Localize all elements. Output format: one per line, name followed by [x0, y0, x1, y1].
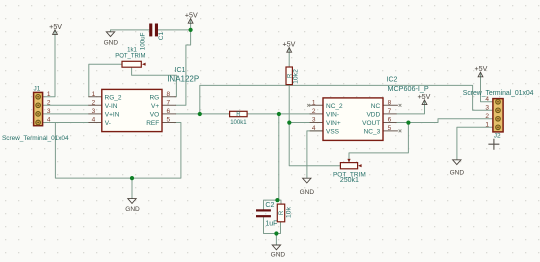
- capacitor C2: [256, 209, 271, 217]
- NC mark IC2 pin 1: [307, 104, 310, 107]
- svg-text:V-IN: V-IN: [105, 103, 118, 110]
- svg-text:+5V: +5V: [282, 40, 295, 48]
- wire +5V to R2 top: [288, 48, 290, 67]
- wire J1 pin3 to IC1 V+IN: [43, 113, 89, 115]
- svg-text:7: 7: [167, 99, 171, 106]
- resistor R3: [277, 204, 284, 222]
- connector J1: [34, 92, 43, 125]
- IC2 pin 7 stub: [383, 113, 396, 115]
- IC1 pin 3 stub: [89, 113, 102, 115]
- svg-text:NC: NC: [371, 103, 381, 110]
- svg-text:VIN+: VIN+: [326, 120, 341, 127]
- svg-text:V+IN: V+IN: [105, 112, 120, 119]
- svg-text:10k2: 10k2: [293, 69, 300, 84]
- wire J1 pin4 to IC1 V-: [43, 122, 89, 124]
- IC2 pin 8 stub: [383, 104, 398, 106]
- IC1 pin 1 stub: [89, 96, 102, 98]
- wire R2 bottom down to pot2 left: [289, 85, 340, 166]
- svg-text:100uF: 100uF: [139, 32, 146, 50]
- svg-text:6: 6: [167, 108, 171, 115]
- resistor R2: [286, 67, 292, 85]
- svg-text:+5V: +5V: [185, 11, 198, 19]
- svg-text:3: 3: [485, 104, 489, 111]
- svg-text:2: 2: [92, 99, 96, 106]
- wire VIN+ node to IC2 VIN+: [289, 122, 310, 124]
- pin numbers IC2: [312, 99, 392, 132]
- junction VOUT node: [406, 121, 410, 125]
- svg-text:RG: RG: [149, 94, 159, 101]
- wire VOUT node down to pot2 wiper: [349, 123, 408, 163]
- svg-text:GND: GND: [450, 169, 465, 176]
- svg-text:VOUT: VOUT: [362, 120, 380, 127]
- svg-text:1: 1: [312, 99, 316, 106]
- wire +5V node down to IC1 V+: [176, 30, 191, 105]
- svg-text:V-: V-: [105, 120, 111, 127]
- wire +5V to J2 pin4: [481, 73, 493, 102]
- NC mark IC2 pin 8: [399, 104, 402, 107]
- IC1 pin 4 stub: [89, 122, 102, 124]
- svg-text:100k1: 100k1: [230, 120, 247, 126]
- svg-text:3: 3: [47, 108, 51, 115]
- svg-text:4: 4: [312, 125, 316, 132]
- IC2 pin 3 stub: [310, 122, 323, 124]
- power +5V at IC2 VDD: [417, 93, 430, 105]
- svg-text:8: 8: [167, 91, 171, 98]
- svg-text:1: 1: [485, 121, 489, 128]
- svg-text:V+: V+: [151, 103, 159, 110]
- svg-text:IC1: IC1: [175, 67, 186, 74]
- junction left ground rail: [130, 176, 134, 180]
- pin names IC1: [105, 94, 160, 127]
- J2 origin cross marker: [488, 139, 499, 150]
- wire IC1 VO to R1: [176, 113, 230, 115]
- ground at left rail: [125, 199, 140, 214]
- wire IC2 VOUT to J2 pin2: [383, 119, 493, 123]
- svg-text:4: 4: [92, 117, 96, 124]
- IC1 pin 2 stub: [89, 104, 102, 106]
- ground at C2: [271, 245, 286, 259]
- wire C1 right plate to +5V node: [158, 19, 191, 30]
- IC2 pin 2 stub: [310, 113, 323, 115]
- IC1 pin 7 stub: [162, 104, 176, 106]
- svg-text:1: 1: [92, 91, 96, 98]
- junction VIN+ node: [287, 121, 291, 125]
- svg-text:VDD: VDD: [366, 112, 380, 119]
- svg-text:INA122P: INA122P: [167, 75, 199, 84]
- svg-text:1: 1: [47, 91, 51, 98]
- wire +5V to J1 pin1: [43, 30, 55, 97]
- svg-text:NC_3: NC_3: [364, 129, 381, 136]
- ground at IC2 VSS: [300, 178, 315, 196]
- IC2 pin 4 stub: [310, 130, 323, 132]
- IC2 pin 6 stub: [383, 122, 396, 124]
- power +5V at R2: [282, 40, 295, 52]
- svg-text:R: R: [236, 112, 241, 118]
- wire GND to C1 left plate: [111, 30, 150, 32]
- pin numbers J1: [47, 91, 51, 124]
- svg-text:6: 6: [388, 117, 392, 124]
- svg-text:NC_2: NC_2: [326, 103, 343, 110]
- NC mark IC2 pin 5: [399, 130, 402, 133]
- svg-text:+5V: +5V: [417, 93, 430, 101]
- power +5V at C1: [185, 11, 198, 23]
- wire IC2 VSS to GND: [307, 131, 323, 178]
- svg-text:GND: GND: [104, 40, 119, 47]
- svg-text:2: 2: [312, 108, 316, 115]
- svg-text:POT_TRIM: POT_TRIM: [115, 53, 145, 59]
- svg-text:MCP606-I_P: MCP606-I_P: [388, 84, 429, 93]
- IC2 pin 1 stub: [310, 104, 323, 106]
- junction VIN- node: [277, 112, 281, 116]
- svg-text:8: 8: [388, 99, 392, 106]
- wire pot1 left terminal to IC1 RG_2: [89, 64, 122, 97]
- op-amp IC1 body: [102, 89, 162, 131]
- svg-text:+5V: +5V: [474, 65, 487, 73]
- power +5V at J1: [49, 23, 62, 35]
- svg-text:GND: GND: [271, 252, 286, 259]
- junction +5V C1 node: [189, 28, 193, 32]
- ground at C1 left: [104, 32, 119, 47]
- IC2 pin 5 stub: [383, 130, 398, 132]
- svg-text:5: 5: [388, 125, 392, 132]
- svg-text:5: 5: [167, 117, 171, 124]
- pin numbers J2: [485, 96, 489, 128]
- svg-text:VIN-: VIN-: [326, 112, 339, 119]
- svg-text:2: 2: [47, 99, 51, 106]
- svg-text:4: 4: [47, 117, 51, 124]
- svg-text:GND: GND: [300, 189, 315, 196]
- svg-text:VO: VO: [150, 112, 159, 119]
- svg-text:R: R: [279, 210, 285, 215]
- svg-text:10k: 10k: [285, 206, 292, 218]
- svg-text:4: 4: [485, 96, 489, 103]
- junction C2 top: [275, 198, 279, 202]
- ground at J2 pin1: [450, 160, 465, 177]
- svg-text:J2: J2: [494, 133, 501, 140]
- wire GND stem at left U: [131, 178, 133, 198]
- svg-text:Screw_Terminal_01x04: Screw_Terminal_01x04: [463, 90, 534, 97]
- connector J2: [493, 99, 503, 132]
- wire VO node up then right to J2 pin3: [200, 85, 493, 114]
- svg-text:7: 7: [388, 108, 392, 115]
- wire J1 pin2 to IC1 V-IN: [43, 104, 89, 106]
- wire R1 to IC2 VIN-: [247, 113, 310, 115]
- trimmer pot RV2: [340, 159, 361, 169]
- wire J2 pin1 to GND: [457, 127, 493, 159]
- svg-text:VSS: VSS: [326, 129, 340, 136]
- power +5V at J2 pin4: [474, 65, 487, 77]
- junction VO node: [198, 112, 202, 116]
- svg-text:J1: J1: [34, 86, 41, 93]
- wire VIN- node down to C2 network: [278, 114, 280, 200]
- svg-text:250k1: 250k1: [340, 177, 359, 184]
- svg-text:3: 3: [312, 117, 316, 124]
- pin numbers IC1: [92, 91, 171, 124]
- IC1 pin 8 stub: [162, 96, 176, 98]
- svg-text:Screw_Terminal_01x04: Screw_Terminal_01x04: [2, 135, 69, 142]
- wire ground U from row4 to REF: [55, 123, 180, 179]
- svg-text:IC2: IC2: [387, 77, 398, 84]
- svg-text:REF: REF: [146, 120, 159, 127]
- svg-text:GND: GND: [125, 206, 140, 213]
- capacitor C1: [149, 24, 158, 37]
- svg-text:C1: C1: [158, 32, 165, 41]
- junction C2 bottom: [274, 231, 278, 235]
- trimmer pot RV1: [122, 61, 146, 67]
- wire IC2 VDD to +5V: [396, 100, 424, 114]
- svg-text:1uF: 1uF: [265, 220, 277, 227]
- IC1 pin 5 stub: [162, 122, 176, 124]
- wire pot1 wiper to IC1 RG: [132, 67, 177, 96]
- svg-text:+5V: +5V: [49, 23, 62, 31]
- pin names IC2: [326, 103, 381, 136]
- svg-text:RG_2: RG_2: [105, 94, 122, 101]
- resistor R1: [230, 111, 248, 116]
- svg-text:3: 3: [92, 108, 96, 115]
- IC1 pin 6 stub: [162, 113, 176, 115]
- op-amp IC2 body: [323, 98, 383, 140]
- wire C2 R3 parallel network: [264, 200, 282, 245]
- svg-text:2: 2: [485, 113, 489, 120]
- svg-text:C2: C2: [265, 202, 274, 209]
